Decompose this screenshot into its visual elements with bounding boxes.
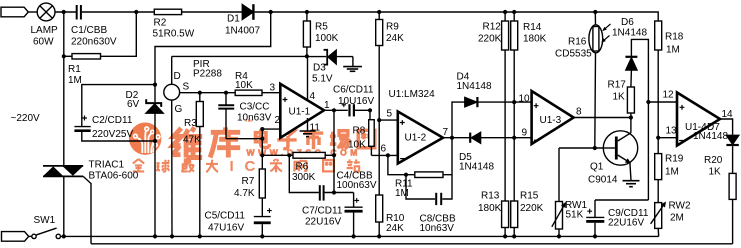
wire pin3: [262, 92, 280, 94]
wire R18 column: [657, 50, 659, 154]
svg-text:14: 14: [722, 109, 734, 120]
resistor R6: [293, 152, 325, 158]
svg-text:1N4148: 1N4148: [612, 28, 647, 39]
svg-text:10n63V: 10n63V: [420, 223, 455, 234]
wire C8 branch: [406, 175, 435, 199]
watermark: [129, 118, 375, 175]
wire top rail: [55, 11, 77, 13]
resistor R7: [259, 169, 265, 198]
node C3/pin2col: [260, 137, 264, 141]
wire R16 top: [594, 12, 596, 25]
node pin9: [512, 136, 516, 140]
svg-text:300K: 300K: [292, 172, 316, 183]
wire pin7 out: [443, 137, 469, 139]
node rail R13: [503, 234, 507, 238]
wire S pin: [180, 92, 236, 94]
svg-text:U1-4: U1-4: [685, 122, 707, 133]
wire pin13: [658, 137, 677, 139]
capacitor C6: [342, 103, 354, 117]
node pin8 collector: [629, 115, 633, 119]
wire R20 bottom to gate rail: [732, 199, 734, 243]
svg-text:100K: 100K: [315, 33, 339, 44]
svg-text:4: 4: [310, 91, 316, 102]
svg-text:R14: R14: [523, 22, 542, 33]
svg-text:U1:LM324: U1:LM324: [389, 89, 436, 100]
node rail C9: [593, 234, 597, 238]
wire: [505, 11, 595, 13]
svg-text:1M: 1M: [665, 167, 679, 178]
wire R6 right: [325, 154, 334, 156]
wire triac lower: [63, 176, 65, 236]
node pin2: [260, 127, 264, 131]
potentiometer RW1: [552, 202, 566, 230]
svg-text:10K: 10K: [348, 140, 366, 151]
wire R3 leads: [199, 93, 201, 237]
wire R11 branch: [388, 155, 415, 174]
wire left column: [63, 12, 65, 56]
node rail C7: [352, 234, 356, 238]
wire C4 right: [325, 192, 354, 194]
wire D6 anode to R17: [630, 70, 633, 87]
wire gate rail: [91, 243, 733, 245]
wire: [255, 11, 307, 13]
svg-text:22U16V: 22U16V: [305, 217, 341, 228]
wire R12 column: [504, 12, 506, 201]
wire R14 column: [513, 12, 515, 201]
wire D2 column: [154, 85, 156, 103]
minus U1-4: [679, 140, 684, 142]
svg-text:12: 12: [663, 90, 675, 101]
resistor R18: [655, 21, 662, 50]
wire R7 to C5: [261, 198, 263, 216]
svg-text:U1-1: U1-1: [289, 107, 311, 118]
svg-text:C9014: C9014: [588, 175, 618, 186]
svg-text:51K: 51K: [566, 210, 584, 221]
wire D5 to pin9: [481, 137, 532, 139]
capacitor C7: [345, 193, 363, 213]
node pin5: [377, 118, 381, 122]
wire: [28, 11, 37, 13]
wire D4 to pin10: [479, 101, 532, 103]
wire G pin: [171, 100, 173, 236]
svg-text:R18: R18: [665, 32, 684, 43]
svg-text:47K: 47K: [183, 135, 201, 146]
svg-text:47U16V: 47U16V: [208, 223, 244, 234]
svg-text:22U16V: 22U16V: [608, 218, 644, 229]
capacitor C8: [436, 193, 441, 205]
resistor R10: [376, 195, 383, 222]
svg-text:R20: R20: [704, 155, 723, 166]
wire C2 bottom: [82, 132, 155, 141]
wire pin4: [307, 56, 309, 100]
svg-text:R8: R8: [353, 126, 366, 137]
svg-text:U1-3: U1-3: [540, 115, 562, 126]
svg-text:R6: R6: [296, 162, 309, 173]
plus U1-3: [534, 103, 539, 108]
wire R17 bottom: [630, 113, 632, 118]
wire C3 bottom to pin2 col: [226, 138, 262, 140]
svg-text:R12: R12: [483, 22, 502, 33]
node rail RW1: [557, 234, 561, 238]
svg-text:D3: D3: [313, 63, 326, 74]
diode D4: [465, 97, 478, 107]
svg-text:180K: 180K: [478, 203, 502, 214]
wire riser pin1 to C4 row: [333, 110, 335, 192]
svg-text:1N4148: 1N4148: [459, 162, 494, 173]
svg-text:60W: 60W: [33, 37, 54, 48]
svg-text:C3/CC: C3/CC: [240, 102, 270, 113]
node C6/R8: [368, 108, 372, 112]
resistor R12: [502, 21, 509, 50]
node R14: [512, 10, 516, 14]
node R16: [593, 10, 597, 14]
wire R15 bottom: [513, 228, 515, 237]
node rail D2col: [153, 234, 157, 238]
node rail R15: [512, 234, 516, 238]
node pin7: [450, 136, 454, 140]
svg-text:C6/CD11: C6/CD11: [333, 85, 374, 96]
wire R8 leads: [370, 110, 371, 155]
svg-text:R13: R13: [481, 191, 500, 202]
opamp U1-1: [280, 84, 324, 138]
capacitor C3: [218, 93, 234, 139]
wire base row: [559, 147, 615, 149]
resistor R2: [154, 9, 181, 14]
opamp U1-2: [398, 112, 443, 164]
svg-text:51R0.5W: 51R0.5W: [153, 29, 195, 40]
svg-text:R15: R15: [520, 191, 539, 202]
wire: [29, 235, 32, 237]
node rail R10: [377, 234, 381, 238]
svg-text:R7: R7: [242, 176, 255, 187]
resistor R20: [729, 173, 736, 199]
node R5: [305, 10, 309, 14]
diode D1: [242, 4, 253, 20]
svg-text:RW2: RW2: [669, 201, 691, 212]
wire R19 bottom: [657, 180, 659, 203]
node rail C5: [260, 234, 264, 238]
resistor R8: [369, 120, 375, 147]
svg-text:10U16V: 10U16V: [338, 96, 374, 107]
svg-text:220K: 220K: [520, 203, 544, 214]
svg-text:R5: R5: [315, 22, 328, 33]
wire C9 bottom: [594, 223, 596, 237]
node triac/rail: [62, 234, 66, 238]
wire down to R18: [657, 12, 659, 21]
wire: [307, 11, 379, 13]
svg-text:LAMP: LAMP: [31, 25, 59, 36]
diode D7: [726, 135, 738, 145]
capacitor C4: [320, 185, 324, 200]
svg-text:TRIAC1: TRIAC1: [89, 160, 125, 171]
node pin6 R11: [386, 153, 390, 157]
opamp U1-4: [677, 93, 720, 146]
ground D3: [343, 57, 362, 72]
capacitor C1: [77, 5, 81, 20]
svg-text:R17: R17: [608, 80, 627, 91]
diode D6: [625, 57, 637, 70]
resistor R5: [303, 21, 310, 47]
node C3 top: [224, 91, 228, 95]
wire RW1 drop: [558, 148, 560, 202]
wire pin1 out: [324, 109, 348, 111]
svg-text:3: 3: [270, 83, 276, 94]
resistor R19: [655, 154, 662, 180]
potentiometer RW2: [651, 202, 666, 229]
capacitor C2: [74, 116, 90, 133]
ldr R16: [589, 24, 611, 53]
wire R10 bottom: [378, 222, 380, 236]
svg-text:1M: 1M: [395, 188, 409, 199]
svg-text:1M: 1M: [68, 75, 82, 86]
svg-text:10K: 10K: [235, 80, 253, 91]
node D2/C2 bottom: [153, 139, 157, 143]
wire C4 left riser: [289, 155, 319, 192]
wire C2 branch: [82, 85, 155, 126]
wire pin6: [371, 154, 397, 156]
svg-text:C2/CD11: C2/CD11: [92, 115, 133, 126]
wire: [595, 11, 658, 13]
svg-text:D1: D1: [227, 14, 240, 25]
node pin10: [512, 100, 516, 104]
wire pin8 out: [574, 117, 631, 119]
resistor R3: [196, 102, 203, 127]
wire C8 right: [442, 175, 452, 199]
wire D6 cathode jog: [631, 39, 648, 200]
svg-text:24K: 24K: [386, 33, 404, 44]
zener D3: [307, 50, 353, 65]
svg-text:G: G: [175, 104, 183, 115]
node R12: [503, 10, 507, 14]
resistor R15: [511, 201, 518, 228]
opamp U1-3: [532, 91, 574, 144]
resistor R1: [72, 54, 101, 59]
wire R6 row: [262, 154, 293, 156]
switch SW1 contacts: [32, 228, 61, 238]
wire C6 to node: [355, 109, 370, 111]
svg-text:7: 7: [443, 127, 449, 138]
wire collector: [630, 118, 632, 133]
node C8 riser: [404, 173, 408, 177]
svg-text:1M: 1M: [666, 45, 680, 56]
wire pin5: [379, 119, 398, 121]
node pin1: [332, 108, 336, 112]
svg-text:R2: R2: [154, 18, 167, 29]
node C4 left riser: [287, 153, 291, 157]
wire pin2 column: [261, 129, 263, 169]
svg-text:6V: 6V: [127, 99, 140, 110]
wire R16 bottom to base: [594, 53, 597, 148]
svg-text:S: S: [183, 82, 190, 93]
svg-text:~220V: ~220V: [11, 113, 41, 124]
svg-text:R9: R9: [386, 22, 399, 33]
svg-text:1N4007: 1N4007: [225, 26, 260, 37]
svg-text:P2288: P2288: [193, 69, 222, 80]
wire R11 right: [443, 138, 452, 175]
minus U1-2: [400, 158, 405, 160]
resistor R4: [235, 90, 262, 95]
node pin13: [656, 136, 660, 140]
zener D2: [146, 99, 163, 113]
wire emitter + ground: [623, 163, 640, 187]
node pin12: [646, 100, 650, 104]
transistor Q1: [603, 131, 638, 165]
svg-text:10n63V: 10n63V: [237, 113, 272, 124]
svg-text:2M: 2M: [670, 213, 684, 224]
wire R9R10 column: [378, 120, 380, 195]
wire: [182, 11, 243, 13]
svg-text:C5/CD11: C5/CD11: [205, 211, 246, 222]
svg-text:I: I: [230, 158, 234, 175]
svg-text:BTA06-600: BTA06-600: [89, 171, 139, 182]
svg-text:1K: 1K: [709, 167, 722, 178]
wire C7 bottom: [353, 213, 355, 237]
plug P1: [1, 7, 28, 17]
diode D5: [470, 132, 480, 143]
svg-text:D: D: [174, 71, 181, 82]
plus U1-4: [680, 105, 685, 110]
wire pin11 + ground: [300, 118, 316, 137]
svg-text:220K: 220K: [478, 34, 502, 45]
node C4/C7 riser: [332, 190, 336, 194]
wire: [63, 56, 65, 166]
switch SW1 plug: [2, 232, 29, 242]
resistor R14: [511, 21, 518, 50]
wire D7 to R20: [732, 146, 734, 173]
wire pin14 out: [720, 119, 733, 135]
node rail R3: [198, 234, 202, 238]
svg-text:2: 2: [275, 115, 281, 126]
wire rectified branch from D1: [155, 12, 271, 85]
svg-text:1N4148: 1N4148: [457, 81, 492, 92]
wire R5 leads: [306, 12, 308, 56]
wire RW1 bottom: [558, 229, 560, 236]
node R3 top: [198, 91, 202, 95]
wire R13 bottom: [504, 228, 506, 237]
svg-text:6: 6: [381, 144, 387, 155]
svg-text:D6: D6: [621, 17, 634, 28]
svg-text:100n63V: 100n63V: [337, 180, 377, 191]
node lamp/C1: [62, 10, 66, 14]
resistor R9: [376, 20, 383, 46]
svg-text:CD5535: CD5535: [555, 49, 592, 60]
svg-text:C1/CBB: C1/CBB: [71, 25, 107, 36]
svg-text:10: 10: [519, 94, 531, 105]
wire D pin: [171, 56, 173, 84]
svg-text:R1: R1: [68, 64, 81, 75]
wire R1 right to rail: [101, 12, 137, 56]
wire bottom rail: [61, 235, 659, 237]
wire: [379, 11, 505, 13]
wire pin12: [648, 101, 677, 103]
node R6 left: [260, 153, 264, 157]
svg-text:R19: R19: [665, 154, 684, 165]
node base: [593, 146, 597, 150]
node R9: [377, 10, 381, 14]
svg-text:180K: 180K: [523, 34, 547, 45]
svg-text:C: C: [245, 158, 256, 175]
wire C5 bottom: [261, 224, 263, 236]
svg-text:13: 13: [666, 126, 678, 137]
node 6V supply: [153, 83, 157, 87]
capacitor C5: [254, 208, 272, 224]
svg-text:R16: R16: [568, 37, 587, 48]
node R1 branch: [134, 10, 138, 14]
wire R1 left lead: [64, 55, 72, 57]
node R1 left: [62, 54, 66, 58]
resistor R11: [415, 172, 443, 178]
wire pin2: [262, 128, 280, 130]
resistor R13: [502, 201, 509, 228]
node R5 bottom: [305, 54, 309, 58]
svg-text:SW1: SW1: [34, 215, 56, 226]
svg-text:4.7K: 4.7K: [234, 188, 255, 199]
svg-text:5.1V: 5.1V: [312, 74, 333, 85]
svg-text:11: 11: [310, 123, 321, 134]
wire triac gate: [83, 176, 91, 243]
svg-text:R3: R3: [184, 118, 197, 129]
wire RW2 bottom: [657, 228, 660, 236]
minus U1-3: [534, 139, 539, 141]
svg-text:5: 5: [387, 109, 393, 120]
plus U1-2: [400, 120, 405, 125]
wire: [82, 11, 154, 13]
svg-text:220n630V: 220n630V: [71, 37, 117, 48]
wire: [154, 113, 156, 236]
svg-text:U1-2: U1-2: [405, 133, 427, 144]
plus U1-1: [283, 97, 288, 102]
node R6 right riser: [332, 153, 336, 157]
capacitor C9: [586, 200, 604, 223]
node D1/down branch: [269, 10, 273, 14]
lamp LAMP 60W: [37, 3, 55, 21]
svg-text:C7/CD11: C7/CD11: [302, 206, 343, 217]
wire C9 jog: [595, 199, 648, 201]
wire R9 leads: [378, 12, 380, 120]
triac TRIAC1: [43, 166, 83, 177]
node rail Gcol: [170, 234, 174, 238]
svg-text:Q1: Q1: [590, 162, 604, 173]
svg-text:1K: 1K: [613, 92, 626, 103]
pir sensor PIR P2288: [164, 84, 180, 100]
svg-text:9: 9: [522, 128, 528, 139]
wire D4 branch: [452, 102, 465, 138]
svg-text:24K: 24K: [386, 223, 404, 234]
svg-text:1: 1: [324, 100, 330, 111]
svg-text:8: 8: [576, 107, 582, 118]
wire 5V line: [172, 55, 307, 57]
svg-text:220V25V: 220V25V: [92, 129, 133, 140]
resistor R17: [627, 87, 634, 113]
